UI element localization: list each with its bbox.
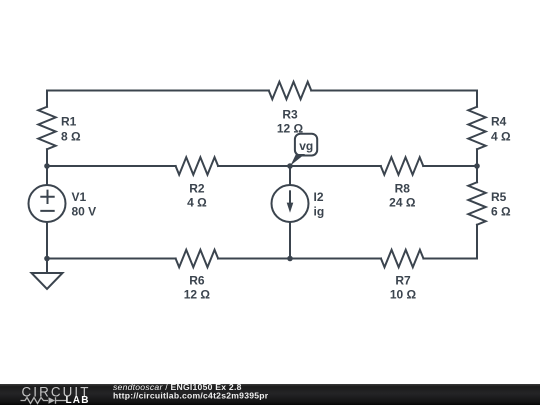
wire left vertical top (46, 91, 48, 107)
svg-text:I2: I2 (314, 190, 324, 204)
svg-text:80 V: 80 V (72, 204, 97, 218)
svg-text:R7: R7 (395, 273, 411, 287)
svg-text:LAB: LAB (66, 395, 90, 405)
svg-text:R6: R6 (189, 273, 205, 287)
vg label bubble (295, 134, 317, 156)
ground (32, 259, 63, 290)
svg-text:R2: R2 (189, 181, 205, 195)
wire top horizontal (47, 90, 477, 92)
svg-text:R5: R5 (491, 190, 507, 204)
arrowhead of I2 (287, 203, 294, 213)
wire right vertical top (476, 91, 478, 107)
wire right vertical bottom (476, 225, 478, 259)
label R1 (61, 107, 511, 301)
resistor R7 (381, 250, 423, 267)
svg-text:ig: ig (314, 204, 325, 218)
svg-text:10 Ω: 10 Ω (390, 288, 417, 302)
resistor R5 (468, 182, 485, 224)
node right-mid (474, 163, 480, 169)
node left-bottom (44, 256, 50, 262)
svg-text:12 Ω: 12 Ω (277, 122, 304, 136)
svg-text:V1: V1 (72, 190, 87, 204)
voltage source V1 (29, 185, 66, 222)
wire left vertical bottom (46, 222, 48, 259)
svg-text:http://circuitlab.com/c4t2s2m9: http://circuitlab.com/c4t2s2m9395pr (113, 390, 269, 400)
svg-text:6 Ω: 6 Ω (491, 204, 511, 218)
svg-text:R1: R1 (61, 115, 77, 129)
wire I2 branch bottom (289, 222, 291, 259)
current source I2 (272, 185, 309, 222)
svg-text:4 Ω: 4 Ω (187, 196, 207, 210)
wire left vertical mid (46, 149, 48, 185)
resistor R1 (38, 107, 55, 149)
svg-text:R4: R4 (491, 115, 507, 129)
resistor R3 (269, 82, 311, 99)
wire I2 branch top (289, 166, 291, 185)
resistor R8 (381, 157, 423, 174)
wire middle horizontal (47, 165, 477, 167)
wire bottom horizontal (47, 258, 477, 260)
svg-text:12 Ω: 12 Ω (184, 288, 211, 302)
node left-mid (44, 163, 50, 169)
footer bar (0, 384, 540, 405)
resistor R4 (468, 107, 485, 149)
svg-text:24 Ω: 24 Ω (389, 196, 416, 210)
wire right vertical mid (476, 149, 478, 182)
svg-text:8 Ω: 8 Ω (61, 129, 81, 143)
svg-text:R8: R8 (395, 181, 411, 195)
resistor R6 (176, 250, 218, 267)
svg-text:4 Ω: 4 Ω (491, 129, 511, 143)
node center-mid (vg) (287, 163, 293, 169)
svg-text:R3: R3 (282, 107, 298, 121)
node center-bottom (287, 256, 293, 262)
svg-text:vg: vg (299, 139, 313, 153)
logo resistor-diode line (21, 397, 67, 403)
resistor R2 (176, 157, 218, 174)
